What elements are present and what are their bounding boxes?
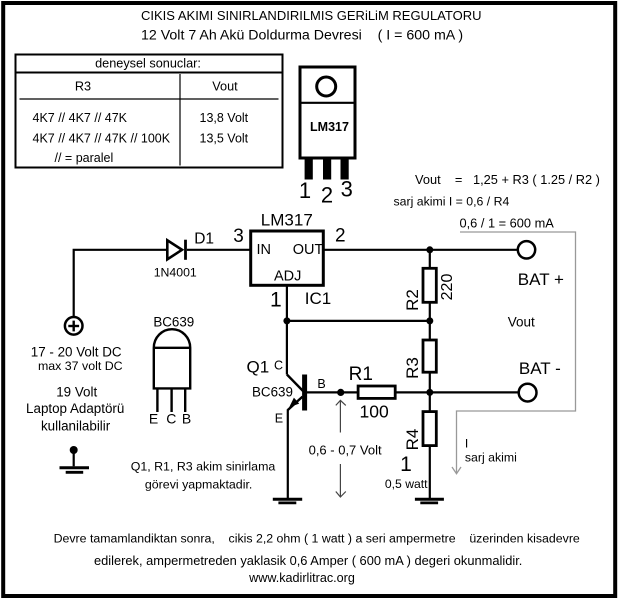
wire OUT pin 2 to BAT+ (323, 249, 518, 251)
LM317 package drawing (300, 67, 355, 180)
svg-text:BAT -: BAT - (519, 359, 561, 378)
svg-text:ADJ: ADJ (274, 269, 301, 285)
svg-text:19 Volt: 19 Volt (56, 385, 97, 400)
svg-text:R3: R3 (75, 80, 91, 94)
ground R4 (415, 499, 444, 503)
svg-text:Laptop Adaptörü: Laptop Adaptörü (26, 401, 124, 416)
svg-text:I: I (465, 437, 468, 451)
svg-text:1: 1 (400, 453, 412, 476)
svg-text:4K7 // 4K7 // 47K: 4K7 // 4K7 // 47K (33, 111, 128, 125)
junction node at R2 top (426, 246, 433, 253)
svg-text:IC1: IC1 (305, 289, 331, 308)
svg-text:// = paralel: // = paralel (55, 151, 114, 165)
svg-text:R1: R1 (349, 364, 373, 385)
ground input (60, 468, 90, 473)
voltage annotation arrow up (336, 400, 346, 432)
svg-text:220: 220 (439, 274, 456, 301)
BC639 package drawing (154, 329, 190, 412)
svg-text:Vout: Vout (212, 80, 238, 94)
svg-text:R2: R2 (403, 289, 422, 311)
wire R1 to node (395, 391, 430, 393)
svg-text:R3: R3 (403, 357, 422, 379)
svg-text:Vout: Vout (508, 315, 535, 330)
junction node R3/R4/BAT- (426, 389, 433, 396)
svg-text:13,8 Volt: 13,8 Volt (200, 111, 249, 125)
input terminal plus (65, 317, 83, 335)
wire node to BAT- (430, 391, 519, 393)
svg-text:2: 2 (321, 183, 333, 208)
ground emitter (273, 499, 302, 503)
resistor R1 (358, 386, 395, 398)
svg-text:C: C (166, 411, 176, 427)
svg-text:2: 2 (335, 225, 346, 246)
wire node ADJ to node R2 bottom (287, 320, 430, 322)
svg-text:B: B (182, 411, 191, 427)
svg-text:BAT +: BAT + (518, 270, 564, 289)
svg-text:BC639: BC639 (153, 315, 194, 330)
svg-text:C: C (274, 358, 283, 372)
svg-text:LM317: LM317 (261, 210, 313, 229)
wire input ground stem (73, 450, 75, 466)
svg-text:deneysel sonuclar:: deneysel sonuclar: (95, 57, 201, 71)
wire ADJ pin 1 (286, 285, 288, 321)
svg-text:kullanilabilir: kullanilabilir (41, 418, 111, 433)
svg-text:sarj akimi: sarj akimi (465, 451, 517, 465)
svg-text:edilerek, ampermetreden yaklas: edilerek, ampermetreden yaklasik 0,6 Amp… (94, 553, 522, 568)
svg-text:4K7 // 4K7 // 47K // 100K: 4K7 // 4K7 // 47K // 100K (33, 131, 171, 145)
wire R4 bottom to ground (429, 446, 431, 498)
svg-text:E: E (149, 411, 158, 427)
svg-text:3: 3 (233, 226, 244, 247)
wire node to R3 top (429, 321, 431, 340)
svg-text:3: 3 (341, 177, 353, 202)
svg-text:Q1: Q1 (247, 358, 270, 377)
svg-text:E: E (275, 412, 283, 426)
svg-text:1: 1 (270, 289, 282, 312)
wire base to R1 (307, 391, 358, 393)
wire collector vertical (286, 321, 288, 375)
svg-text:0,6 / 1 = 600 mA: 0,6 / 1 = 600 mA (460, 216, 555, 231)
voltage annotation arrow down (336, 464, 346, 497)
svg-text:B: B (317, 377, 325, 391)
svg-text:Q1, R1, R3 akim sinirlama: Q1, R1, R3 akim sinirlama (131, 460, 276, 474)
svg-text:OUT: OUT (293, 242, 324, 258)
svg-text:görevi yapmaktadir.: görevi yapmaktadir. (145, 478, 252, 492)
svg-text:max 37 volt DC: max 37 volt DC (38, 359, 123, 373)
terminal BAT- (519, 384, 537, 402)
junction node input ground (70, 446, 78, 454)
svg-text:www.kadirlitrac.org: www.kadirlitrac.org (248, 571, 355, 585)
junction node B (337, 389, 344, 396)
svg-text:D1: D1 (194, 231, 214, 248)
svg-text:100: 100 (360, 402, 389, 422)
svg-text:sarj akimi I = 0,6 / R4: sarj akimi I = 0,6 / R4 (394, 195, 510, 209)
svg-text:17 - 20 Volt DC: 17 - 20 Volt DC (31, 345, 122, 360)
wire R3 bottom to node (429, 372, 431, 392)
svg-text:BC639: BC639 (252, 385, 293, 400)
terminal BAT+ (518, 241, 535, 258)
svg-text:Devre tamamlandiktan sonra,: Devre tamamlandiktan sonra, cikis 2,2 oh… (54, 532, 580, 546)
transistor Q1 (287, 375, 307, 411)
svg-text:1: 1 (299, 178, 311, 203)
wire input terminal to D1 anode (74, 250, 168, 317)
svg-text:LM317: LM317 (310, 120, 349, 134)
wire R2 bottom to node (429, 302, 431, 321)
svg-text:Vout = 1,25 + R3 ( 1.25 /: Vout = 1,25 + R3 ( 1.25 / R2 ) (415, 172, 600, 187)
svg-text:CIKIS AKIMI SINIRLANDIRILMIS G: CIKIS AKIMI SINIRLANDIRILMIS GERiLiM REG… (141, 8, 481, 23)
junction node ADJ (283, 317, 290, 324)
svg-text:12 Volt 7 Ah Akü Doldurma Devr: 12 Volt 7 Ah Akü Doldurma Devresi ( I = … (141, 28, 463, 44)
resistor R3 (423, 340, 436, 372)
current path sarj akimi (452, 232, 576, 474)
svg-text:0,5 watt: 0,5 watt (385, 477, 428, 491)
junction node R2/R3 (426, 317, 433, 324)
results table (16, 55, 283, 168)
svg-text:R4: R4 (403, 429, 422, 451)
wire emitter to ground (287, 409, 289, 498)
diode D1 (167, 240, 185, 260)
svg-text:0,6 - 0,7 Volt: 0,6 - 0,7 Volt (309, 443, 382, 458)
wire D1 to IN pin 3 (187, 249, 251, 251)
wire node to R4 top (429, 392, 431, 411)
wire to R2 top (429, 250, 431, 268)
resistor R2 (423, 268, 436, 302)
regulator IC1 LM317 box (251, 231, 324, 285)
svg-text:13,5 Volt: 13,5 Volt (200, 131, 249, 145)
svg-text:IN: IN (257, 242, 272, 258)
svg-text:1N4001: 1N4001 (154, 266, 197, 280)
resistor R4 (423, 412, 436, 446)
